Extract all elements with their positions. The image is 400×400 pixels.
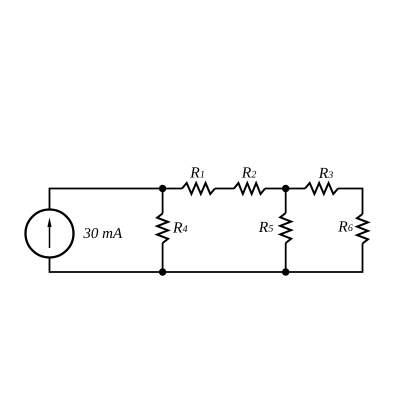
svg-text:4: 4 bbox=[183, 224, 188, 235]
svg-text:R: R bbox=[258, 219, 269, 236]
svg-text:R: R bbox=[189, 165, 200, 182]
svg-text:3: 3 bbox=[327, 170, 333, 181]
svg-text:5: 5 bbox=[268, 224, 273, 235]
svg-text:6: 6 bbox=[348, 223, 353, 234]
svg-text:R: R bbox=[337, 218, 348, 235]
svg-text:R: R bbox=[172, 220, 183, 237]
svg-text:R: R bbox=[241, 165, 252, 182]
svg-text:1: 1 bbox=[200, 170, 205, 181]
svg-text:30 mA: 30 mA bbox=[82, 226, 123, 242]
svg-text:2: 2 bbox=[251, 170, 256, 181]
svg-text:R: R bbox=[318, 165, 329, 182]
